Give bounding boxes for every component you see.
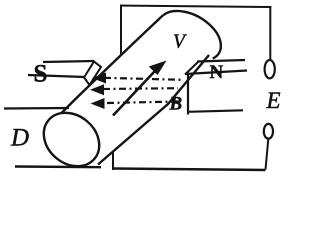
svg-text:D: D bbox=[10, 124, 29, 151]
svg-text:S: S bbox=[34, 61, 48, 88]
svg-text:N: N bbox=[210, 62, 224, 83]
svg-text:V: V bbox=[173, 32, 187, 53]
svg-text:B: B bbox=[169, 94, 183, 115]
svg-text:E: E bbox=[266, 88, 281, 113]
